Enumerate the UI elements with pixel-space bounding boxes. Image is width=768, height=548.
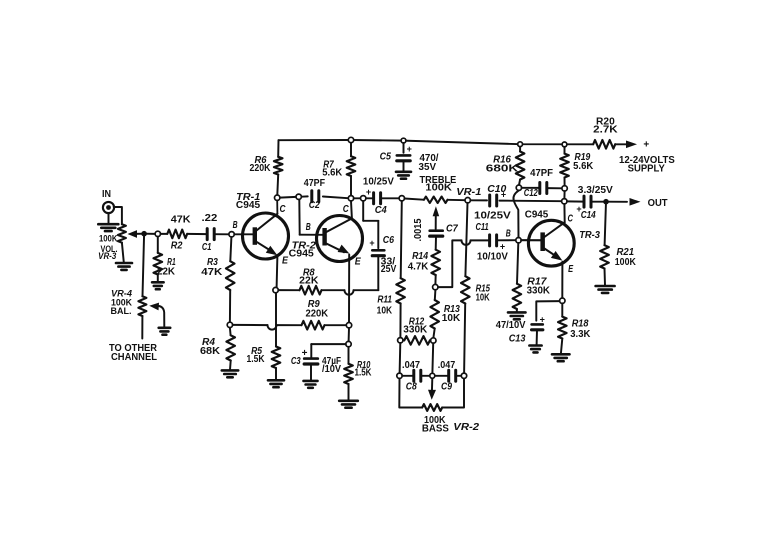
svg-text:C7: C7 [446,224,458,235]
svg-text:R11: R11 [377,295,392,306]
svg-text:VR-3: VR-3 [98,251,117,262]
svg-text:47PF: 47PF [304,178,325,189]
svg-text:C9: C9 [441,382,452,393]
svg-text:IN: IN [102,189,111,200]
svg-text:+: + [540,315,545,325]
svg-text:+: + [407,144,412,154]
svg-text:10/25V: 10/25V [363,176,394,187]
svg-text:R2: R2 [171,241,183,252]
svg-text:22K: 22K [157,266,176,277]
svg-text:47K: 47K [171,215,192,226]
svg-text:VR-1: VR-1 [456,187,482,198]
svg-text:C945: C945 [289,249,315,260]
svg-text:CHANNEL: CHANNEL [111,352,157,363]
svg-text:100K: 100K [99,233,118,244]
svg-text:C8: C8 [406,382,417,393]
svg-text:+: + [643,140,649,151]
svg-text:C: C [343,204,350,215]
svg-text:VR-2: VR-2 [453,422,479,433]
svg-text:BAL.: BAL. [111,306,132,317]
svg-text:C13: C13 [509,333,526,344]
svg-text:25V: 25V [381,264,397,275]
svg-text:C6: C6 [383,235,395,246]
svg-text:3.3K: 3.3K [570,329,591,340]
svg-text:/10V: /10V [322,364,341,375]
svg-text:10K: 10K [377,306,393,317]
svg-text:C2: C2 [309,200,320,211]
svg-text:+: + [369,238,374,248]
svg-text:10/10V: 10/10V [477,252,508,263]
svg-text:100K: 100K [615,257,637,268]
svg-text:35V: 35V [419,162,437,173]
svg-text:47K: 47K [201,267,223,278]
svg-text:+: + [501,190,506,200]
svg-text:22K: 22K [299,276,319,287]
svg-text:.0015: .0015 [413,218,424,241]
svg-text:.047: .047 [402,360,420,371]
svg-text:680K: 680K [486,163,519,174]
svg-text:C945: C945 [525,209,549,220]
svg-text:+: + [366,187,371,197]
svg-text:.047: .047 [438,360,456,371]
svg-text:E: E [568,264,573,275]
svg-text:C14: C14 [581,210,596,221]
svg-text:SUPPLY: SUPPLY [628,164,666,175]
svg-text:E: E [355,257,361,268]
svg-text:C4: C4 [375,205,387,216]
svg-text:C1: C1 [202,242,212,253]
svg-text:E: E [282,256,288,267]
svg-text:B: B [506,228,511,239]
svg-text:BASS: BASS [422,424,449,435]
svg-text:330K: 330K [527,286,551,297]
svg-text:R18: R18 [572,318,589,329]
svg-text:C12: C12 [524,188,538,199]
svg-text:C5: C5 [380,151,392,162]
svg-text:B: B [233,220,238,231]
svg-text:1.5K: 1.5K [247,354,266,365]
svg-text:C945: C945 [236,200,261,211]
svg-text:5.6K: 5.6K [322,167,343,178]
svg-text:5.6K: 5.6K [573,161,594,172]
svg-text:C: C [280,204,287,215]
svg-text:.22: .22 [202,213,218,224]
svg-text:100K: 100K [425,182,452,193]
svg-text:68K: 68K [200,346,221,357]
svg-text:+: + [500,242,505,252]
svg-text:C11: C11 [476,222,490,233]
svg-text:2.7K: 2.7K [593,125,618,136]
svg-text:330K: 330K [403,324,428,335]
svg-text:OUT: OUT [648,198,668,209]
svg-text:B: B [306,222,311,233]
svg-text:220K: 220K [305,308,328,319]
svg-text:220K: 220K [250,163,272,174]
svg-text:10K: 10K [442,313,461,324]
svg-text:1.5K: 1.5K [355,367,373,378]
svg-text:3.3/25V: 3.3/25V [578,185,613,196]
svg-text:10K: 10K [476,293,491,304]
svg-text:4.7K: 4.7K [408,261,429,272]
svg-text:C3: C3 [291,356,301,367]
svg-text:C: C [568,213,574,224]
svg-text:+: + [302,348,308,359]
svg-text:TR-3: TR-3 [579,230,600,241]
svg-text:47/10V: 47/10V [496,320,526,331]
svg-text:47PF: 47PF [530,168,553,179]
svg-text:10/25V: 10/25V [474,210,511,221]
